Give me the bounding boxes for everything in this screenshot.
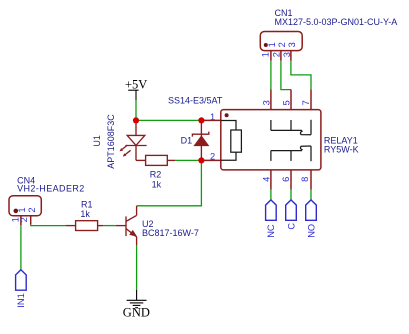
svg-text:5: 5 [282, 100, 292, 105]
LED U1 [122, 120, 147, 160]
svg-text:NO: NO [306, 224, 316, 238]
svg-text:RY5W-K: RY5W-K [324, 145, 359, 155]
junction B [198, 117, 204, 123]
diode D1 [192, 120, 208, 160]
relay coil [221, 121, 242, 161]
svg-text:BC817-16W-7: BC817-16W-7 [142, 228, 199, 238]
svg-text:1: 1 [210, 112, 215, 122]
svg-text:3: 3 [287, 42, 297, 47]
svg-text:2: 2 [277, 42, 287, 47]
transistor U2 [116, 206, 137, 245]
wire R2 to D1 node [175, 159, 201, 161]
svg-text:SS14-E3/5AT: SS14-E3/5AT [168, 96, 223, 106]
svg-text:C: C [286, 223, 296, 230]
svg-text:U1: U1 [92, 135, 102, 147]
wire relay pin6 to C [290, 190, 292, 200]
junction C [198, 157, 204, 163]
svg-text:3: 3 [282, 52, 292, 57]
wire +5V to rail [135, 100, 137, 120]
svg-text:+5V: +5V [125, 78, 147, 92]
svg-text:1k: 1k [152, 179, 162, 189]
svg-text:8: 8 [300, 177, 310, 182]
svg-text:1: 1 [267, 42, 277, 47]
svg-text:NC: NC [266, 224, 276, 238]
port NC [266, 200, 277, 220]
port IN1 [16, 270, 27, 291]
wire relay pin4 to NC [270, 190, 272, 200]
connector CN1 [260, 32, 302, 61]
relay RELAY1 [201, 89, 321, 189]
wire D1 node down to transistor collector [137, 160, 202, 205]
svg-text:2: 2 [210, 151, 215, 161]
svg-text:VH2-HEADER2: VH2-HEADER2 [17, 183, 85, 193]
relay contacts bottom [271, 146, 311, 161]
power +5V [128, 90, 138, 100]
wire CN1 pin2 to relay pin5 [281, 61, 291, 90]
svg-text:2: 2 [19, 217, 29, 222]
wire CN4 pin1 to IN1 [20, 225, 22, 269]
svg-text:1: 1 [261, 52, 271, 57]
svg-text:3: 3 [261, 100, 271, 105]
wire rail to relay pin1 [136, 119, 201, 121]
svg-text:IN1: IN1 [16, 293, 26, 307]
svg-text:4: 4 [262, 177, 272, 182]
port C [286, 200, 297, 220]
svg-text:1k: 1k [80, 209, 90, 219]
wire CN1 pin3 to relay pin7 [291, 61, 311, 90]
relay contacts top [271, 120, 311, 135]
junction A [133, 117, 139, 123]
svg-text:MX127-5.0-03P-GN01-CU-Y-A: MX127-5.0-03P-GN01-CU-Y-A [275, 17, 398, 27]
svg-text:1: 1 [17, 207, 27, 212]
wire emitter to GND [136, 245, 138, 290]
svg-text:2: 2 [27, 207, 37, 212]
wire R1 to base [103, 225, 116, 227]
svg-text:R2: R2 [150, 169, 162, 179]
svg-text:D1: D1 [181, 135, 193, 145]
svg-text:7: 7 [301, 100, 311, 105]
svg-text:GND: GND [123, 306, 150, 320]
wire CN4 pin2 to R1 [31, 225, 66, 226]
resistor R1 [66, 221, 104, 231]
ground GND [127, 290, 147, 308]
svg-text:2: 2 [272, 52, 282, 57]
wire CN1 pin1 to relay pin3 [270, 61, 272, 90]
svg-text:APT1608F3C: APT1608F3C [106, 114, 116, 169]
connector CN4 [9, 196, 41, 226]
wire relay pin8 to NO [310, 190, 312, 200]
resistor R2 [146, 155, 176, 165]
port NO [306, 200, 317, 220]
svg-text:6: 6 [281, 177, 291, 182]
